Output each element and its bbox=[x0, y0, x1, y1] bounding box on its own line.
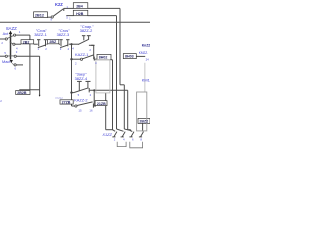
svg-text:1: 1 bbox=[19, 30, 21, 34]
svg-text:2: 2 bbox=[75, 61, 77, 65]
svg-text:38ZZ-4: 38ZZ-4 bbox=[75, 76, 88, 81]
svg-text:1: 1 bbox=[69, 18, 71, 21]
svg-text:KAZZ-1: KAZZ-1 bbox=[75, 52, 88, 57]
svg-text:4: 4 bbox=[68, 47, 70, 51]
svg-text:2: 2 bbox=[0, 99, 2, 103]
svg-text:21ZB: 21ZB bbox=[97, 102, 106, 106]
svg-text:X1ZZ: X1ZZ bbox=[101, 132, 112, 137]
svg-text:KAZZ-2: KAZZ-2 bbox=[74, 97, 87, 102]
svg-text:8H02: 8H02 bbox=[99, 56, 108, 60]
svg-text:38ZZ-2: 38ZZ-2 bbox=[80, 28, 93, 33]
svg-text:5: 5 bbox=[66, 16, 68, 20]
svg-text:4: 4 bbox=[16, 46, 18, 50]
svg-text:27ZB: 27ZB bbox=[62, 101, 71, 105]
svg-text:38ZZ-3: 38ZZ-3 bbox=[57, 32, 70, 37]
svg-text:KnZ2: KnZ2 bbox=[142, 44, 150, 48]
svg-text:KM2Z.: KM2Z. bbox=[139, 51, 149, 55]
svg-text:2: 2 bbox=[90, 93, 92, 97]
svg-text:2B12: 2B12 bbox=[35, 14, 44, 18]
svg-text:38ZZ-1: 38ZZ-1 bbox=[34, 32, 47, 37]
svg-text:3: 3 bbox=[16, 50, 18, 54]
svg-text:8H03: 8H03 bbox=[125, 55, 134, 59]
svg-text:2B2B: 2B2B bbox=[17, 91, 27, 95]
svg-text:K2Z: K2Z bbox=[55, 2, 63, 7]
svg-text:Avt: Avt bbox=[3, 31, 9, 36]
svg-text:KM1Z: KM1Z bbox=[142, 77, 150, 82]
svg-text:8: 8 bbox=[140, 137, 142, 141]
svg-text:16: 16 bbox=[89, 109, 93, 113]
svg-text:4: 4 bbox=[95, 61, 97, 65]
svg-text:5: 5 bbox=[4, 51, 6, 55]
svg-text:6: 6 bbox=[132, 137, 134, 141]
svg-text:KM12: KM12 bbox=[56, 96, 64, 100]
svg-text:2B2: 2B2 bbox=[23, 40, 30, 44]
svg-text:15: 15 bbox=[78, 109, 82, 113]
svg-text:5: 5 bbox=[78, 93, 80, 97]
svg-text:2B4: 2B4 bbox=[76, 5, 83, 9]
svg-text:2: 2 bbox=[89, 48, 91, 52]
svg-text:2: 2 bbox=[45, 47, 47, 51]
svg-text:Mact: Mact bbox=[2, 59, 11, 64]
svg-text:H2B: H2B bbox=[76, 12, 84, 16]
svg-text:4: 4 bbox=[123, 137, 125, 141]
svg-text:2: 2 bbox=[114, 137, 116, 141]
svg-text:2BZ: 2BZ bbox=[49, 40, 57, 44]
svg-text:4: 4 bbox=[72, 47, 74, 51]
svg-text:2: 2 bbox=[1, 41, 3, 45]
svg-text:6: 6 bbox=[15, 67, 17, 71]
svg-text:2BZ2: 2BZ2 bbox=[139, 120, 148, 124]
svg-text:24: 24 bbox=[146, 57, 150, 61]
